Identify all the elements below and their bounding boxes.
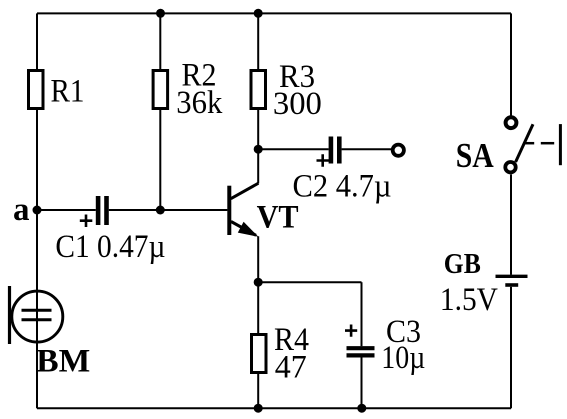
svg-text:a: a [13, 192, 30, 228]
svg-text:BM: BM [36, 343, 90, 379]
svg-text:C2 4.7µ: C2 4.7µ [293, 169, 392, 205]
svg-text:C1 0.47µ: C1 0.47µ [55, 229, 165, 265]
svg-text:47: 47 [275, 349, 307, 385]
svg-text:1.5V: 1.5V [440, 282, 498, 318]
svg-text:GB: GB [444, 248, 481, 280]
svg-text:VT: VT [257, 199, 299, 235]
svg-text:SA: SA [456, 137, 494, 175]
svg-text:36k: 36k [176, 85, 222, 121]
svg-text:300: 300 [273, 86, 322, 122]
svg-text:R1: R1 [51, 73, 85, 109]
svg-text:10µ: 10µ [381, 340, 425, 376]
